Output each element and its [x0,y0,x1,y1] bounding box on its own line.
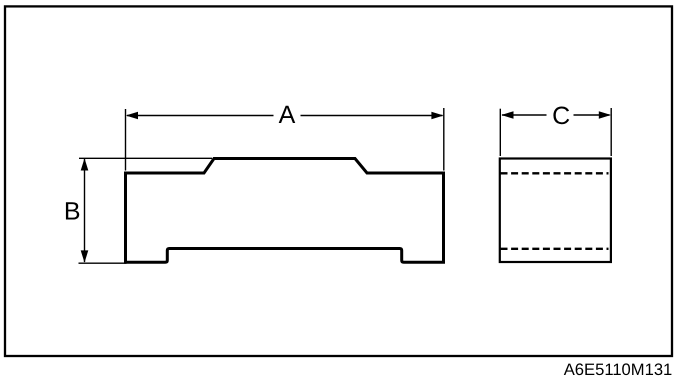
extension line A left [125,109,127,171]
svg-text:B: B [64,197,81,225]
arrowhead A right [431,112,443,120]
svg-text:A6E5110M131: A6E5110M131 [564,360,673,379]
svg-text:C: C [552,102,570,130]
part outline (front view) [126,159,444,263]
dimension line C [502,114,547,116]
extension line B bottom [79,262,127,264]
dimension line A [127,115,274,117]
extension line A right [443,108,445,171]
arrowhead A left [126,112,138,120]
dimension line B [84,159,86,262]
arrowhead B bottom [81,250,89,262]
arrowhead C left [501,111,513,119]
hidden line bottom [501,248,609,250]
extension line C left [499,109,501,156]
svg-text:A: A [279,101,296,129]
hidden line top [501,172,609,174]
side view rectangle [500,159,611,263]
arrowhead C right [599,111,611,119]
extension line C right [610,108,612,156]
extension line B top [79,157,212,159]
arrowhead B top [81,158,89,170]
